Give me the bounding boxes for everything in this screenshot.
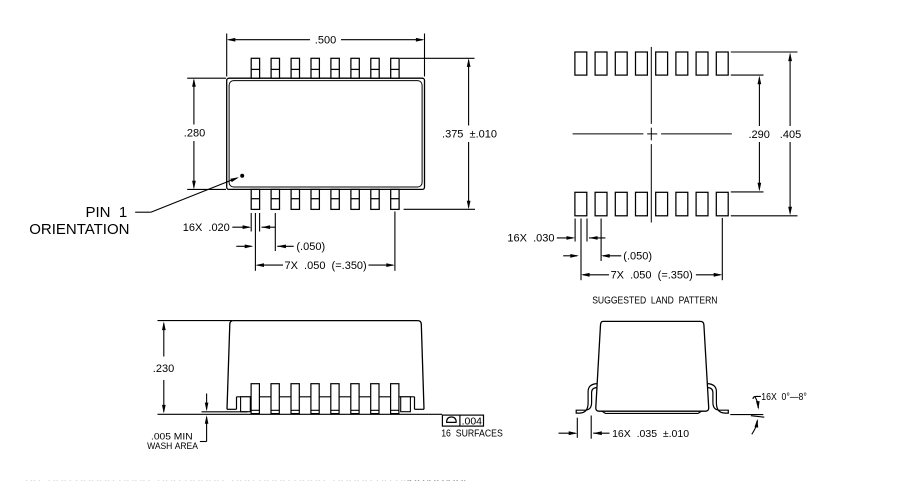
svg-text:.230: .230 <box>153 363 174 375</box>
side view: lead 8 <box>391 384 399 414</box>
end view: package body outline <box>596 321 709 411</box>
svg-text:WASH AREA: WASH AREA <box>147 441 198 452</box>
dimension .375 ±.010 (lead span, top view) <box>400 58 497 209</box>
svg-text:XX XXX XXXXX XXXX XXX XXXXX: XX XXX XXXXX XXXX XXX XXXXX XXX XXXX XXX… <box>25 478 411 481</box>
side view: end-on lead at left end <box>241 397 251 412</box>
end view: right gull-wing lead <box>708 384 729 414</box>
svg-text:16X .030: 16X .030 <box>507 233 554 245</box>
land pattern: pad 4 (top row) <box>636 52 648 75</box>
side view: end step right <box>414 397 416 410</box>
svg-text:.405: .405 <box>780 129 801 141</box>
svg-text:.500: .500 <box>315 35 336 47</box>
side view: lead 3 <box>291 384 299 414</box>
svg-text:(.050): (.050) <box>296 241 325 253</box>
top view: pin 16 (bottom row lead end) <box>251 189 259 209</box>
land pattern: pad 13 (bottom row) <box>636 192 648 216</box>
svg-text:.280: .280 <box>184 128 205 140</box>
top view: pin 4 (top row lead end) <box>311 58 319 78</box>
svg-text:16X .020: 16X .020 <box>183 222 230 234</box>
land pattern: pad 6 (top row) <box>676 52 688 75</box>
land pattern: pad 1 (top row) <box>575 52 587 75</box>
dimension (.050) pitch (land pattern) <box>563 219 652 281</box>
top view: pin 15 (bottom row lead end) <box>271 189 279 209</box>
side view: end step left <box>236 397 238 410</box>
dimension (.050) pitch (top view) <box>236 213 325 271</box>
side view: lead 1 <box>251 384 259 414</box>
land pattern: horizontal centreline <box>573 133 732 135</box>
dimension 7X .050 (=.350) (land pattern) <box>581 218 722 282</box>
side view: wash-area reference line <box>202 411 248 413</box>
dimension .280 (body height, top view) <box>184 78 226 189</box>
land pattern: pad 7 (top row) <box>696 52 708 75</box>
svg-text:16 SURFACES: 16 SURFACES <box>441 428 503 439</box>
side view: seating plane line <box>158 413 443 415</box>
top view: pin 1 index dot <box>240 174 244 178</box>
dimension 16X .030 (pad width, land pattern) <box>507 219 605 245</box>
top view: pin 3 (top row lead end) <box>291 58 299 78</box>
dimension 7X .050 (=.350) (top view) <box>255 212 395 273</box>
top view: pin 2 (top row lead end) <box>271 58 279 78</box>
svg-text:.375 ±.010: .375 ±.010 <box>442 129 497 141</box>
side view: body underside line behind leads <box>237 396 415 398</box>
top view: pin 6 (top row lead end) <box>351 58 359 78</box>
dimension .230 (body height, side view) <box>153 321 232 414</box>
land pattern: pad 11 (bottom row) <box>676 192 688 216</box>
top view: package body outer outline <box>227 78 425 189</box>
side view: lead 2 <box>271 384 279 414</box>
side view: end-on lead at right end <box>401 397 411 412</box>
dimension .005 MIN WASH AREA with leader <box>147 394 208 453</box>
svg-text:.290: .290 <box>748 129 769 141</box>
land pattern: pad 2 (top row) <box>595 52 607 75</box>
land pattern: pad 9 (bottom row) <box>716 192 728 216</box>
dimension .500 (overall width, top view) <box>227 34 425 77</box>
top view: pin 10 (bottom row lead end) <box>371 189 379 209</box>
side view: lead 7 <box>371 384 379 414</box>
land pattern: vertical centreline <box>650 47 652 223</box>
flatness feature control frame .004 <box>442 415 483 428</box>
dimension 16X .035 ±.010 (lead length, end view) <box>559 416 690 441</box>
svg-text:16X 0°—8°: 16X 0°—8° <box>761 392 807 403</box>
top view: pin 11 (bottom row lead end) <box>351 189 359 209</box>
svg-text:7X .050 (=.350): 7X .050 (=.350) <box>611 270 693 282</box>
svg-text:.004: .004 <box>462 416 483 428</box>
land pattern: pad 15 (bottom row) <box>595 192 607 216</box>
side view: body bottom edge segments <box>227 408 424 410</box>
svg-text:7X .050 (=.350): 7X .050 (=.350) <box>284 260 366 272</box>
top view: pin 13 (bottom row lead end) <box>311 189 319 209</box>
land pattern: pad 12 (bottom row) <box>656 192 668 216</box>
svg-text:PIN 1: PIN 1 <box>86 204 128 221</box>
top view: pin 8 (top row lead end) <box>391 58 399 78</box>
top view: pin 12 (bottom row lead end) <box>331 189 339 209</box>
side view: package body outline <box>227 321 424 410</box>
top view: pin 1 (top row lead end) <box>251 58 259 78</box>
land pattern: pad 8 (top row) <box>716 52 728 75</box>
svg-text:(XX/XX/XX): (XX/XX/XX) <box>405 478 468 481</box>
side view: lead 4 <box>311 384 319 414</box>
dimension .405 (outer pad span, land pattern) <box>731 52 801 216</box>
top view: pin 9 (bottom row lead end) <box>391 189 399 209</box>
dimension 16X .020 (lead width, top view) <box>183 213 276 234</box>
land pattern: pad 14 (bottom row) <box>615 192 627 216</box>
svg-text:ORIENTATION: ORIENTATION <box>29 221 129 238</box>
land pattern: pad 3 (top row) <box>615 52 627 75</box>
svg-text:(.050): (.050) <box>623 251 652 263</box>
land pattern: pad 5 (top row) <box>656 52 668 75</box>
label PIN 1 with leader arrow to index dot <box>29 177 239 238</box>
top view: pin 5 (top row lead end) <box>331 58 339 78</box>
end view: standoff line under body <box>602 411 702 413</box>
land pattern: pad 16 (bottom row) <box>575 192 587 216</box>
dimension 16X 0°-8° lead angle with arc <box>730 392 807 434</box>
svg-text:SUGGESTED LAND PATTERN: SUGGESTED LAND PATTERN <box>592 294 717 306</box>
clipped revision note at sheet bottom <box>25 478 468 481</box>
side view: lead 5 <box>331 384 339 414</box>
top view: package body inner outline <box>229 81 422 187</box>
top view: pin 14 (bottom row lead end) <box>291 189 299 209</box>
end view: left gull-wing lead <box>576 384 597 414</box>
side view: lead 6 <box>351 384 359 414</box>
top view: pin 7 (top row lead end) <box>371 58 379 78</box>
land pattern: pad 10 (bottom row) <box>696 192 708 216</box>
dimension .290 (inner pad span, land pattern) <box>731 75 770 192</box>
svg-text:16X .035 ±.010: 16X .035 ±.010 <box>612 428 689 440</box>
